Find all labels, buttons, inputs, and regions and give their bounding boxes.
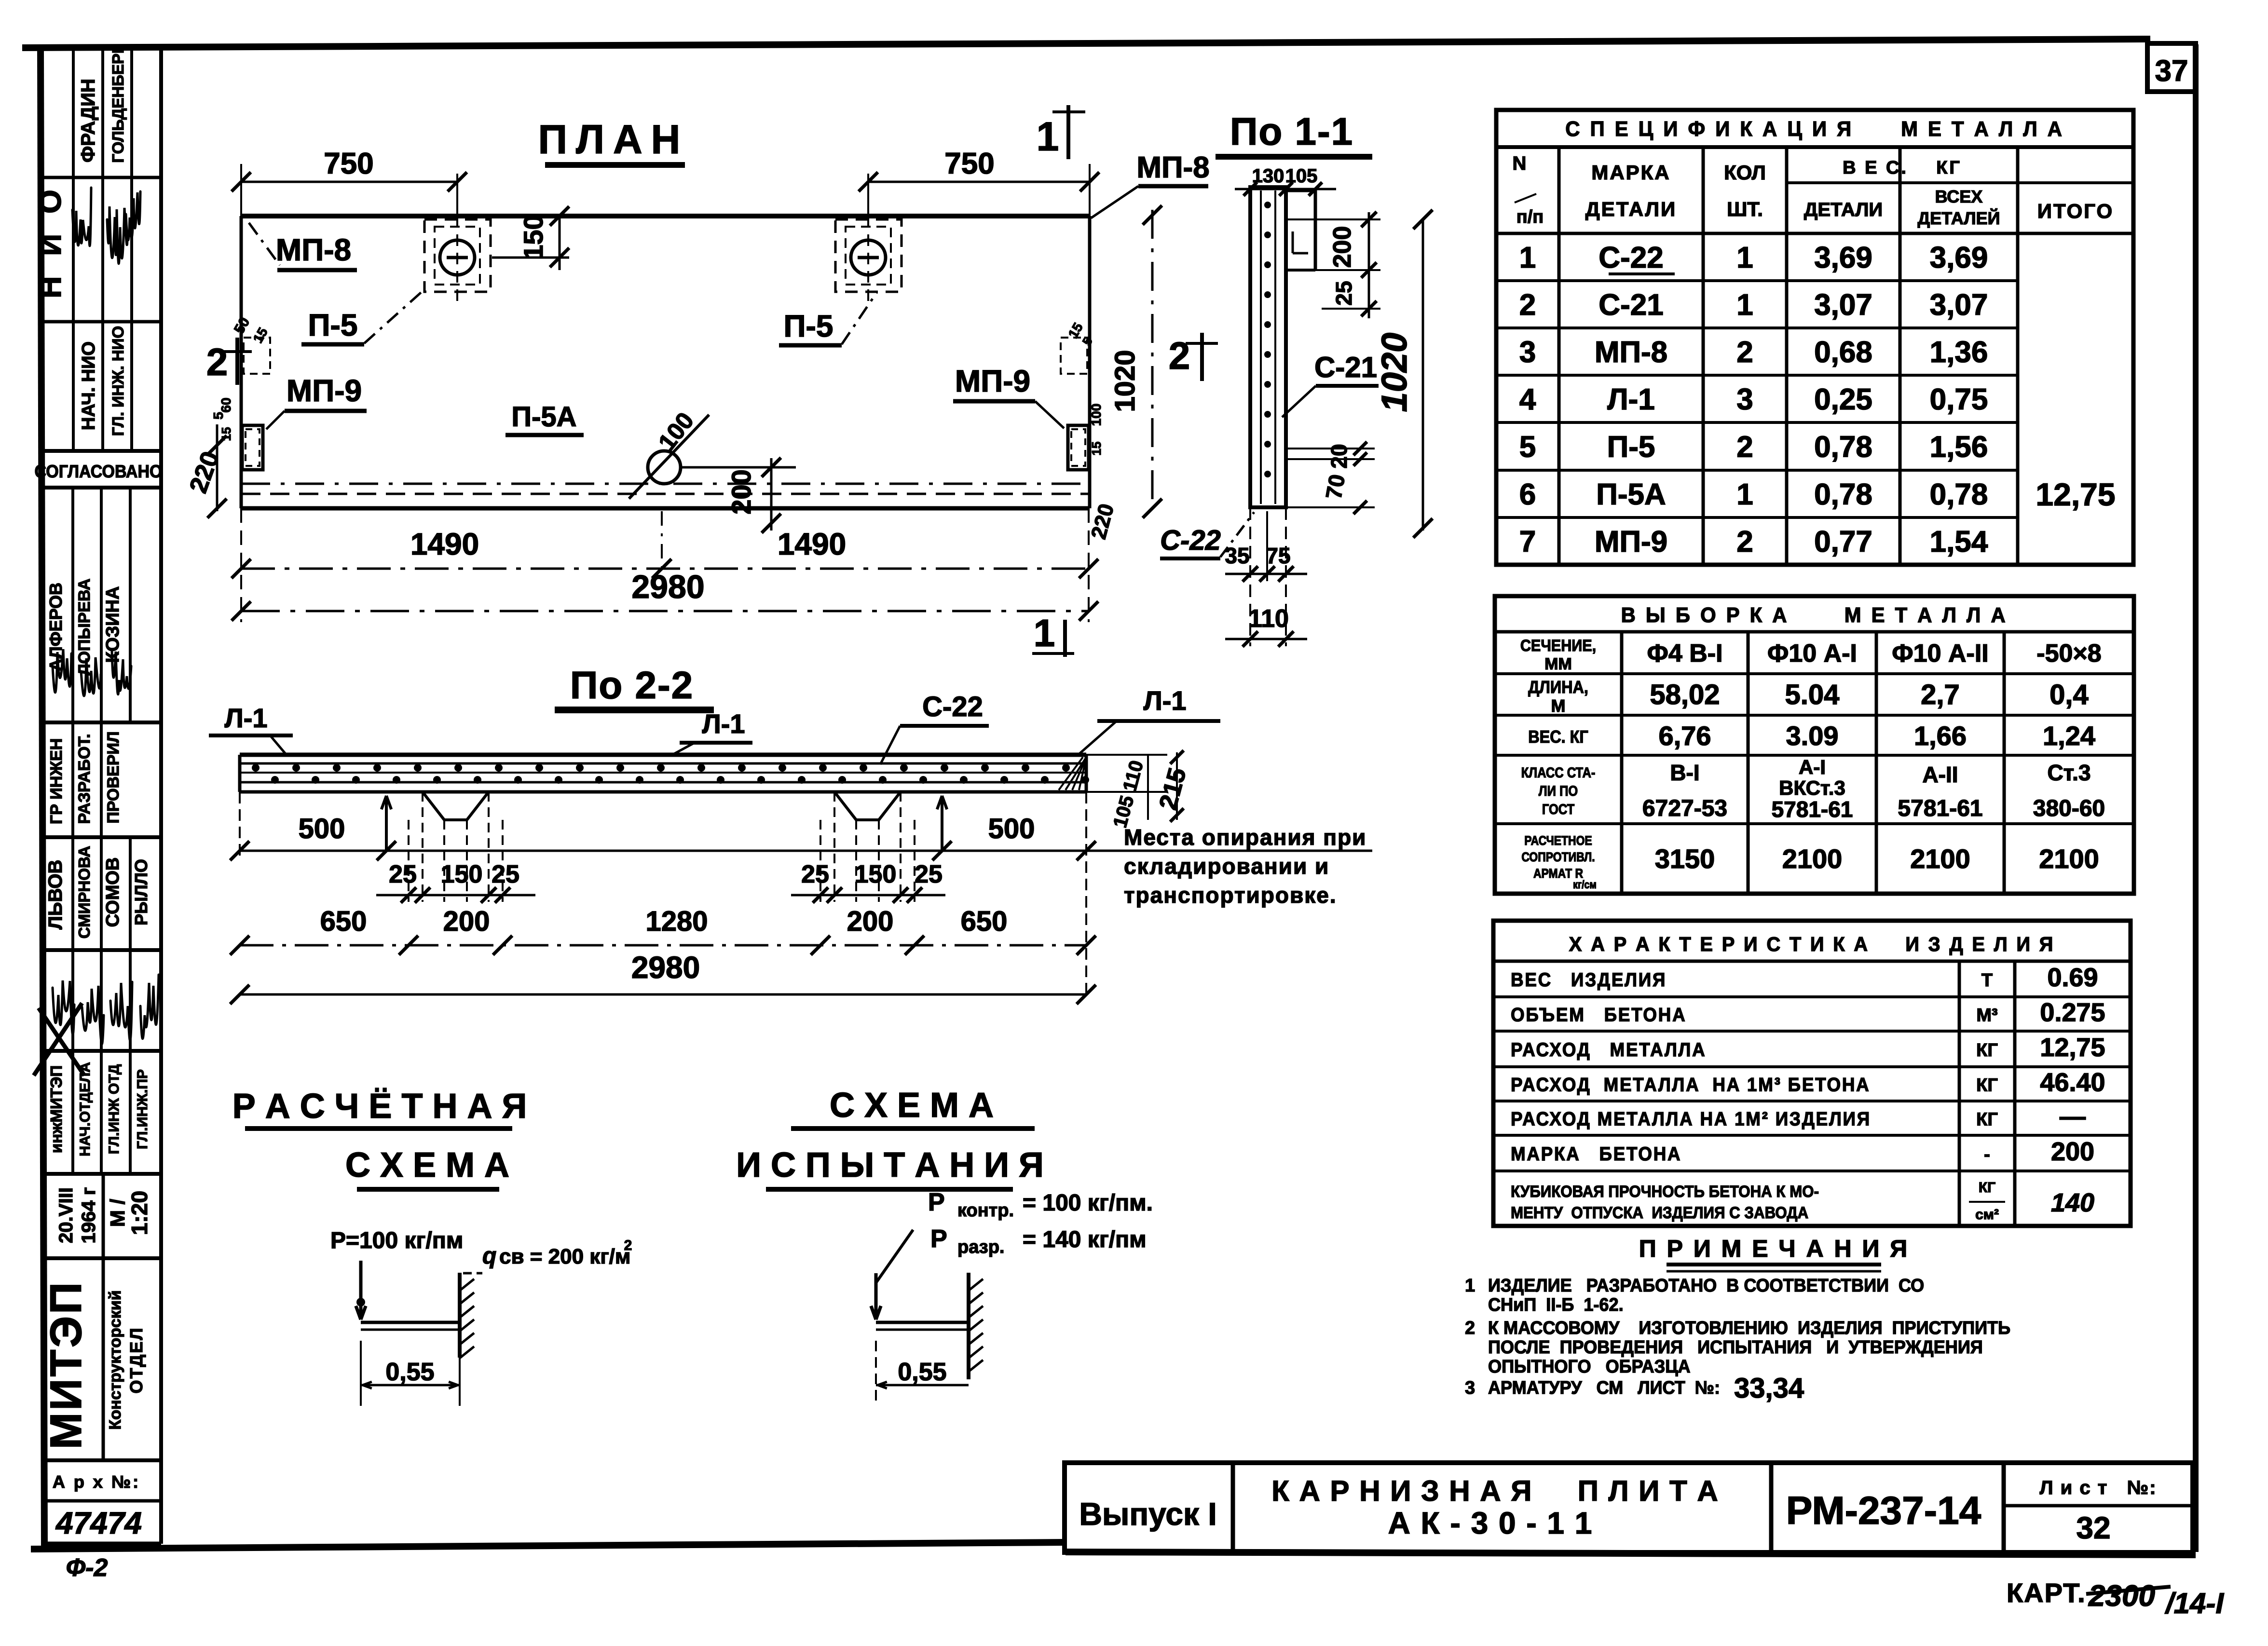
svg-text:КУБИКОВАЯ ПРОЧНОСТЬ БЕТОНА К М: КУБИКОВАЯ ПРОЧНОСТЬ БЕТОНА К МО-	[1511, 1182, 1819, 1201]
svg-text:2100: 2100	[2039, 843, 2099, 874]
svg-text:75: 75	[1266, 543, 1290, 568]
svg-text:ЛЬВОВ: ЛЬВОВ	[45, 860, 66, 930]
svg-text:5781-61: 5781-61	[1772, 797, 1853, 822]
svg-text:разр.: разр.	[957, 1237, 1004, 1257]
svg-text:МП-9: МП-9	[287, 373, 362, 408]
svg-text:2: 2	[1465, 1318, 1475, 1338]
svg-text:Р: Р	[930, 1225, 947, 1253]
svg-text:2: 2	[1736, 336, 1753, 369]
svg-text:1280: 1280	[645, 906, 708, 937]
svg-text:0,78: 0,78	[1814, 478, 1872, 511]
svg-text:5781-61: 5781-61	[1898, 796, 1982, 821]
svg-text:1020: 1020	[1109, 350, 1141, 412]
svg-text:П-5: П-5	[1607, 431, 1655, 464]
svg-text:ПОСЛЕ ПРОВЕДЕНИЯ ИСПЫТАНИЯ: ПОСЛЕ ПРОВЕДЕНИЯ ИСПЫТАНИЯ И УТВЕРЖДЕНИЯ	[1488, 1336, 1983, 1357]
svg-text:200: 200	[847, 906, 894, 937]
svg-text:20.VIII: 20.VIII	[55, 1187, 77, 1243]
svg-text:0,78: 0,78	[1814, 431, 1872, 464]
svg-text:1,56: 1,56	[1930, 431, 1988, 464]
svg-text:СМИРНОВА: СМИРНОВА	[75, 846, 93, 939]
svg-text:Л-1: Л-1	[1143, 685, 1186, 716]
svg-text:КЛАСС СТА-: КЛАСС СТА-	[1521, 764, 1596, 780]
svg-text:q: q	[482, 1243, 496, 1269]
svg-text:5.04: 5.04	[1785, 679, 1840, 710]
svg-text:500: 500	[988, 813, 1035, 844]
svg-text:РАСХОД МЕТАЛЛА НА 1М³ БЕТОНА: РАСХОД МЕТАЛЛА НА 1М³ БЕТОНА	[1511, 1074, 1871, 1096]
svg-text:П Р И М Е Ч А Н И Я: П Р И М Е Ч А Н И Я	[1639, 1235, 1909, 1262]
svg-text:ИТОГО: ИТОГО	[2037, 200, 2114, 222]
svg-text:С-22: С-22	[1599, 241, 1663, 274]
svg-text:Р А С Ч Ё Т Н А Я: Р А С Ч Ё Т Н А Я	[232, 1087, 527, 1126]
svg-text:СОПРОТИВЛ.: СОПРОТИВЛ.	[1521, 850, 1595, 864]
svg-text:—: —	[2060, 1102, 2086, 1131]
svg-text:1020: 1020	[1374, 333, 1414, 412]
svg-text:1,24: 1,24	[2043, 721, 2095, 751]
svg-text:КГ: КГ	[1976, 1075, 1998, 1096]
svg-text:380-60: 380-60	[2033, 796, 2105, 821]
svg-text:КГ: КГ	[1979, 1180, 1995, 1196]
svg-text:750: 750	[944, 147, 994, 180]
svg-text:И С П Ы Т А Н И Я: И С П Ы Т А Н И Я	[736, 1146, 1044, 1184]
svg-text:2: 2	[206, 340, 228, 383]
svg-text:Конструкторский: Конструкторский	[106, 1290, 124, 1429]
svg-text:150: 150	[441, 860, 483, 888]
svg-text:200: 200	[443, 906, 490, 937]
svg-text:500: 500	[299, 813, 345, 844]
svg-text:РАЗРАБОТ.: РАЗРАБОТ.	[75, 734, 94, 824]
svg-text:МИТЭП: МИТЭП	[41, 1280, 91, 1450]
svg-text:110: 110	[1248, 605, 1289, 633]
svg-text:N: N	[1513, 153, 1527, 174]
svg-text:Выпуск I: Выпуск I	[1079, 1496, 1216, 1532]
svg-text:Л-1: Л-1	[702, 708, 745, 739]
svg-text:2: 2	[1169, 334, 1190, 377]
svg-text:С-21: С-21	[1599, 288, 1663, 322]
svg-text:ММ: ММ	[1544, 655, 1572, 673]
svg-text:кг/см: кг/см	[1573, 879, 1597, 891]
svg-text:0,25: 0,25	[1814, 383, 1872, 416]
svg-text:см²: см²	[1975, 1207, 1999, 1223]
svg-text:ГЛ.ИНЖ ОТД: ГЛ.ИНЖ ОТД	[106, 1064, 122, 1155]
svg-text:П-5А: П-5А	[511, 401, 576, 433]
svg-text:1:20: 1:20	[127, 1191, 152, 1235]
svg-text:3,07: 3,07	[1814, 288, 1872, 322]
svg-text:0,78: 0,78	[1930, 478, 1988, 511]
svg-text:П-5: П-5	[784, 309, 833, 343]
svg-text:ГЛ.ИНЖ.ПР: ГЛ.ИНЖ.ПР	[135, 1069, 150, 1149]
svg-text:3150: 3150	[1655, 843, 1715, 874]
svg-text:К А Р Н И З Н А Я П Л И Т: К А Р Н И З Н А Я П Л И Т А	[1271, 1475, 1719, 1507]
svg-text:25: 25	[389, 860, 417, 888]
svg-text:КГ: КГ	[1976, 1110, 1998, 1130]
svg-text:ОПЫТНОГО ОБРАЗЦА: ОПЫТНОГО ОБРАЗЦА	[1488, 1356, 1691, 1376]
svg-text:К МАССОВОМУ ИЗГОТОВЛЕНИЮ И: К МАССОВОМУ ИЗГОТОВЛЕНИЮ ИЗДЕЛИЯ ПРИСТУП…	[1488, 1317, 2010, 1338]
svg-text:ШТ.: ШТ.	[1727, 198, 1763, 220]
svg-text:650: 650	[961, 906, 1008, 937]
svg-text:М /: М /	[106, 1199, 129, 1227]
svg-text:3,69: 3,69	[1930, 241, 1988, 274]
svg-text:0,75: 0,75	[1930, 383, 1988, 416]
svg-text:ГЛ. ИНЖ. НИО: ГЛ. ИНЖ. НИО	[109, 326, 127, 436]
svg-text:P=100 кг/пм: P=100 кг/пм	[330, 1228, 463, 1253]
svg-text:1490: 1490	[410, 527, 479, 561]
svg-text:-: -	[1984, 1144, 1990, 1165]
svg-text:МП-9: МП-9	[955, 364, 1030, 398]
svg-text:3,69: 3,69	[1814, 241, 1872, 274]
svg-text:С Х Е М А: С Х Е М А	[830, 1086, 994, 1125]
svg-text:/14-I: /14-I	[2164, 1587, 2224, 1619]
svg-text:2100: 2100	[1910, 843, 1970, 874]
svg-text:А р х №:: А р х №:	[53, 1472, 140, 1492]
svg-text:Л-1: Л-1	[1607, 383, 1655, 416]
svg-text:1: 1	[1037, 114, 1059, 159]
svg-text:М: М	[1551, 696, 1566, 716]
svg-text:6: 6	[1519, 478, 1536, 511]
svg-text:КОЛ: КОЛ	[1724, 161, 1766, 184]
svg-text:Л-1: Л-1	[224, 703, 267, 733]
svg-text:МП-8: МП-8	[1136, 151, 1209, 184]
svg-text:1: 1	[1465, 1276, 1475, 1296]
svg-text:0,55: 0,55	[898, 1358, 946, 1386]
svg-text:3: 3	[1519, 336, 1536, 369]
svg-text:2: 2	[1736, 431, 1753, 464]
svg-text:РАСХОД МЕТАЛЛА НА 1М² ИЗДЕЛИЯ: РАСХОД МЕТАЛЛА НА 1М² ИЗДЕЛИЯ	[1511, 1108, 1871, 1130]
svg-text:35: 35	[1225, 543, 1249, 568]
svg-text:200: 200	[2051, 1137, 2094, 1166]
svg-text:0.275: 0.275	[2040, 998, 2105, 1027]
svg-text:1964 г: 1964 г	[78, 1187, 99, 1244]
svg-text:КГ: КГ	[1976, 1040, 1998, 1061]
svg-text:3,07: 3,07	[1930, 288, 1988, 322]
svg-text:В Ы Б О Р К А М Е Т А Л: В Ы Б О Р К А М Е Т А Л Л А	[1621, 603, 2008, 627]
svg-text:4: 4	[1519, 383, 1536, 416]
svg-text:ЛОПЫРЕВА: ЛОПЫРЕВА	[75, 579, 94, 676]
svg-text:Ф10 А-II: Ф10 А-II	[1892, 639, 1988, 667]
svg-text:С-22: С-22	[1160, 525, 1221, 556]
svg-text:ВКСт.3: ВКСт.3	[1779, 776, 1845, 799]
svg-text:100: 100	[1089, 404, 1104, 426]
svg-text:А-II: А-II	[1922, 762, 1958, 787]
svg-text:2980: 2980	[631, 569, 704, 605]
svg-text:70: 70	[1321, 473, 1350, 501]
svg-text:25: 25	[1331, 281, 1356, 305]
svg-text:150: 150	[518, 215, 548, 259]
svg-text:= 140 кг/пм: = 140 кг/пм	[1023, 1227, 1147, 1252]
svg-text:3: 3	[1465, 1378, 1475, 1398]
svg-text:ДЛИНА,: ДЛИНА,	[1528, 678, 1588, 697]
svg-text:Ф-2: Ф-2	[66, 1554, 108, 1582]
svg-text:М³: М³	[1976, 1006, 1997, 1026]
svg-text:ВЕС ИЗДЕЛИЯ: ВЕС ИЗДЕЛИЯ	[1511, 969, 1667, 991]
svg-text:НАЧ. НИО: НАЧ. НИО	[79, 341, 99, 430]
svg-text:ДЕТАЛЕЙ: ДЕТАЛЕЙ	[1918, 208, 2000, 228]
svg-text:Л и с т №:: Л и с т №:	[2039, 1477, 2157, 1498]
svg-text:140: 140	[2051, 1188, 2094, 1217]
svg-text:ГОСТ: ГОСТ	[1542, 801, 1574, 817]
svg-text:650: 650	[320, 906, 367, 937]
svg-text:РМ-237-14: РМ-237-14	[1786, 1489, 1981, 1533]
svg-text:транспортировке.: транспортировке.	[1124, 883, 1337, 908]
svg-text:1,54: 1,54	[1930, 525, 1988, 558]
svg-text:С-21: С-21	[1314, 351, 1377, 383]
svg-text:ФРАДИН: ФРАДИН	[78, 79, 99, 163]
svg-text:С П Е Ц И Ф И К А Ц И Я М: С П Е Ц И Ф И К А Ц И Я М Е Т А Л Л А	[1565, 117, 2064, 141]
svg-text:П-5: П-5	[308, 308, 358, 342]
svg-text:ГР ИНЖЕН: ГР ИНЖЕН	[47, 738, 66, 824]
svg-text:ЛИ ПО: ЛИ ПО	[1539, 783, 1578, 799]
svg-text:Ф4 В-I: Ф4 В-I	[1647, 639, 1722, 667]
svg-text:контр.: контр.	[957, 1200, 1014, 1221]
svg-text:0,77: 0,77	[1814, 525, 1872, 558]
svg-text:Т: Т	[1981, 970, 1993, 991]
svg-text:25: 25	[801, 860, 829, 888]
svg-text:складировании и: складировании и	[1124, 854, 1329, 879]
svg-text:Ф10 А-I: Ф10 А-I	[1767, 639, 1857, 667]
svg-text:Х А Р А К Т Е Р И С Т И К А: Х А Р А К Т Е Р И С Т И К А И З Д Е Л И …	[1569, 933, 2055, 955]
svg-text:По 2-2: По 2-2	[570, 664, 694, 707]
svg-text:МП-8: МП-8	[276, 232, 351, 267]
svg-text:МП-8: МП-8	[1595, 336, 1667, 369]
svg-text:2: 2	[1736, 525, 1753, 558]
svg-text:МП-9: МП-9	[1595, 525, 1667, 558]
svg-text:п/п: п/п	[1517, 207, 1544, 227]
svg-text:32: 32	[2076, 1510, 2110, 1545]
svg-text:1: 1	[1736, 478, 1753, 511]
svg-text:-50×8: -50×8	[2036, 639, 2101, 667]
svg-text:0,55: 0,55	[385, 1358, 434, 1386]
svg-text:2300: 2300	[2088, 1579, 2155, 1613]
svg-text:3: 3	[1736, 383, 1753, 416]
svg-text:1,36: 1,36	[1930, 336, 1988, 369]
svg-text:20: 20	[1326, 444, 1352, 468]
svg-text:1: 1	[1736, 241, 1753, 274]
svg-text:33,34: 33,34	[1734, 1373, 1804, 1404]
svg-text:1: 1	[1736, 288, 1753, 322]
svg-text:НАЧ.ОТДЕЛА: НАЧ.ОТДЕЛА	[77, 1062, 93, 1156]
svg-text:ГОЛЬДЕНБЕРГ: ГОЛЬДЕНБЕРГ	[109, 44, 127, 163]
svg-text:По 1-1: По 1-1	[1230, 110, 1353, 153]
svg-text:МАРКА: МАРКА	[1591, 161, 1670, 184]
svg-text:60: 60	[219, 397, 233, 412]
svg-text:КАРТ.: КАРТ.	[2007, 1578, 2086, 1608]
svg-text:2: 2	[1519, 288, 1536, 322]
svg-text:РАСЧЕТНОЕ: РАСЧЕТНОЕ	[1524, 833, 1592, 848]
svg-text:ИЗДЕЛИЕ РАЗРАБОТАНО В СООТВ: ИЗДЕЛИЕ РАЗРАБОТАНО В СООТВЕТСТВИИ СО	[1488, 1275, 1924, 1295]
svg-text:25: 25	[492, 860, 519, 888]
svg-text:Места опирания при: Места опирания при	[1124, 825, 1366, 850]
svg-text:Н И О: Н И О	[33, 184, 68, 299]
svg-text:12,75: 12,75	[2036, 476, 2115, 512]
svg-text:В-I: В-I	[1670, 760, 1699, 785]
svg-text:1,66: 1,66	[1914, 721, 1967, 751]
svg-text:0,68: 0,68	[1814, 336, 1872, 369]
svg-text:0,4: 0,4	[2049, 679, 2089, 710]
svg-text:инжМИТЭП: инжМИТЭП	[47, 1065, 65, 1153]
svg-text:А-I: А-I	[1799, 756, 1826, 778]
svg-text:Р: Р	[928, 1188, 945, 1216]
svg-text:ОТДЕЛ: ОТДЕЛ	[126, 1326, 146, 1393]
svg-text:47474: 47474	[55, 1506, 142, 1540]
svg-text:12,75: 12,75	[2040, 1033, 2105, 1062]
svg-text:0.69: 0.69	[2047, 963, 2098, 992]
svg-text:2100: 2100	[1782, 843, 1843, 874]
svg-text:С Х Е М А: С Х Е М А	[345, 1146, 509, 1184]
svg-text:ДЕТАЛИ: ДЕТАЛИ	[1585, 198, 1677, 220]
svg-text:МЕНТУ ОТПУСКА ИЗДЕЛИЯ С ЗАВО: МЕНТУ ОТПУСКА ИЗДЕЛИЯ С ЗАВОДА	[1511, 1203, 1808, 1222]
svg-text:ПЛАН: ПЛАН	[538, 117, 689, 162]
svg-text:ОБЪЕМ БЕТОНА: ОБЪЕМ БЕТОНА	[1511, 1004, 1686, 1026]
svg-text:СОМОВ: СОМОВ	[103, 857, 123, 927]
svg-text:200: 200	[1328, 226, 1356, 268]
svg-text:200: 200	[726, 469, 756, 514]
svg-text:АРМАТУРУ СМ ЛИСТ №:: АРМАТУРУ СМ ЛИСТ №:	[1488, 1377, 1720, 1398]
svg-text:ДЕТАЛИ: ДЕТАЛИ	[1804, 199, 1883, 220]
svg-text:СНиП II-Б 1-62.: СНиП II-Б 1-62.	[1488, 1294, 1624, 1315]
svg-text:св = 200 кг/м: св = 200 кг/м	[499, 1245, 630, 1268]
svg-text:7: 7	[1519, 525, 1536, 558]
svg-text:3.09: 3.09	[1786, 721, 1839, 751]
svg-text:5: 5	[1519, 431, 1536, 464]
svg-text:СЕЧЕНИЕ,: СЕЧЕНИЕ,	[1520, 637, 1596, 655]
svg-text:6,76: 6,76	[1659, 721, 1711, 751]
svg-text:В Е С. КГ: В Е С. КГ	[1843, 158, 1962, 178]
svg-text:МАРКА БЕТОНА: МАРКА БЕТОНА	[1511, 1143, 1681, 1165]
svg-text:А К - 3 0 - 1 1: А К - 3 0 - 1 1	[1388, 1506, 1593, 1540]
svg-text:25: 25	[915, 860, 943, 888]
svg-text:750: 750	[324, 147, 373, 180]
svg-text:37: 37	[2155, 54, 2188, 88]
svg-text:46.40: 46.40	[2040, 1068, 2105, 1097]
svg-text:РЫЛЛО: РЫЛЛО	[131, 859, 151, 925]
svg-text:2980: 2980	[631, 950, 700, 985]
svg-text:2: 2	[624, 1238, 632, 1253]
svg-text:1490: 1490	[778, 527, 846, 561]
svg-text:РАСХОД МЕТАЛЛА: РАСХОД МЕТАЛЛА	[1511, 1039, 1706, 1061]
svg-text:6727-53: 6727-53	[1642, 796, 1727, 821]
svg-text:Ст.3: Ст.3	[2047, 760, 2090, 785]
svg-text:ПРОВЕРИЛ: ПРОВЕРИЛ	[104, 731, 123, 823]
svg-text:СОГЛАСОВАНО: СОГЛАСОВАНО	[34, 462, 162, 482]
svg-text:58,02: 58,02	[1650, 679, 1720, 710]
svg-text:15: 15	[1089, 442, 1104, 456]
svg-text:П-5А: П-5А	[1596, 478, 1666, 511]
svg-text:ВЕС. КГ: ВЕС. КГ	[1528, 727, 1588, 747]
svg-text:150: 150	[855, 860, 897, 888]
svg-text:С-22: С-22	[922, 691, 983, 722]
svg-text:2,7: 2,7	[1921, 679, 1960, 710]
svg-text:= 100 кг/пм.: = 100 кг/пм.	[1023, 1190, 1153, 1216]
svg-text:ВСЕХ: ВСЕХ	[1935, 187, 1983, 206]
svg-text:1: 1	[1034, 612, 1055, 654]
svg-text:1: 1	[1519, 241, 1536, 274]
